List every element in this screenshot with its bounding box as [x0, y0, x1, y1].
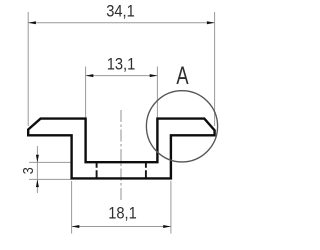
- svg-text:18,1: 18,1: [108, 205, 137, 223]
- svg-text:34,1: 34,1: [106, 3, 135, 21]
- svg-text:3: 3: [20, 167, 36, 174]
- svg-text:13,1: 13,1: [107, 56, 136, 74]
- svg-text:A: A: [176, 61, 189, 89]
